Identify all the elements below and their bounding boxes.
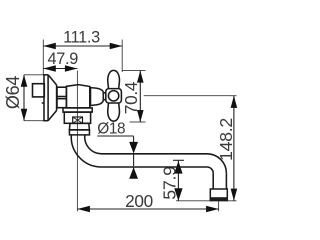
svg-text:57.9: 57.9 xyxy=(160,166,180,200)
svg-text:148.2: 148.2 xyxy=(216,118,236,161)
svg-text:70.4: 70.4 xyxy=(121,81,141,114)
svg-text:47.9: 47.9 xyxy=(48,50,79,68)
svg-text:Ø64: Ø64 xyxy=(3,76,23,109)
svg-text:111.3: 111.3 xyxy=(63,28,100,46)
svg-text:Ø18: Ø18 xyxy=(97,121,125,138)
svg-text:200: 200 xyxy=(125,191,153,211)
